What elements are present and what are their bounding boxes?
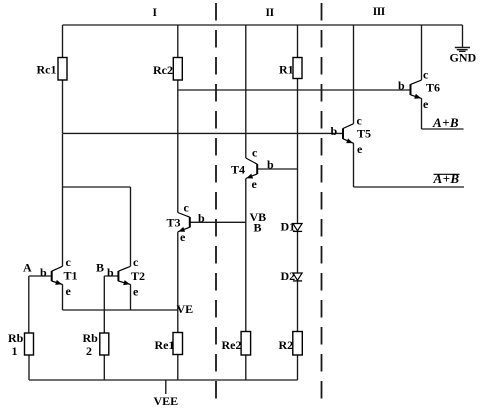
- svg-text:T1: T1: [64, 269, 78, 283]
- svg-text:II: II: [266, 7, 275, 19]
- svg-text:B: B: [96, 261, 104, 275]
- wire: VEE stub: [165, 380, 167, 394]
- svg-text:Rb: Rb: [83, 331, 99, 345]
- wire: x62.5 from wire B down to T1 collector: [62, 133, 64, 266]
- resistor R1: [279, 58, 302, 79]
- svg-text:e: e: [133, 285, 139, 299]
- svg-text:T4: T4: [231, 162, 245, 176]
- svg-text:c: c: [423, 68, 429, 82]
- transistor T2: [107, 255, 145, 299]
- svg-text:T2: T2: [131, 269, 145, 283]
- svg-text:GND: GND: [450, 50, 477, 64]
- wire: Re2 bottom to bottom rail: [245, 355, 247, 380]
- svg-text:e: e: [180, 230, 186, 244]
- svg-text:Rc1: Rc1: [37, 63, 57, 77]
- svg-text:b: b: [331, 124, 338, 138]
- wire: D2 to R2 top: [297, 281, 299, 332]
- wire: Rc1 bottom lead down to node of wire B: [62, 80, 64, 133]
- resistor Re2: [222, 332, 251, 356]
- svg-text:R2: R2: [279, 338, 294, 352]
- diode D2: [281, 269, 303, 283]
- wire: R1 bottom lead down to D1: [297, 79, 299, 224]
- wire: Rb1 bottom to bottom rail: [28, 355, 30, 380]
- resistor Rc1: [37, 58, 68, 81]
- svg-text:e: e: [357, 142, 363, 156]
- svg-text:e: e: [252, 177, 258, 191]
- wire: Re1 bottom to bottom rail: [177, 355, 179, 381]
- resistor Re1: [155, 333, 183, 355]
- svg-text:b: b: [198, 211, 205, 225]
- wire: emitter rail joining T1,T2 emitters to VE: [63, 309, 178, 311]
- wire: Rb2 bottom to bottom rail: [103, 355, 105, 380]
- svg-text:VE: VE: [177, 302, 194, 316]
- wire: VE to Re1 top: [177, 310, 179, 333]
- wire: T5 collector up to top rail: [353, 25, 355, 124]
- wire: Rc2 top lead: [177, 25, 179, 58]
- svg-text:I: I: [153, 7, 158, 19]
- svg-text:A: A: [23, 261, 32, 275]
- wire: T4 base to diode string: [257, 168, 297, 170]
- svg-text:c: c: [252, 145, 258, 159]
- transistor T5: [331, 114, 372, 156]
- svg-text:b: b: [107, 265, 114, 279]
- svg-text:Rb: Rb: [8, 331, 24, 345]
- svg-text:Rc2: Rc2: [153, 63, 173, 77]
- svg-text:A+B: A+B: [433, 171, 460, 186]
- wire A: Rc2 collector node to T6 base: [178, 89, 411, 91]
- transistor T4: [231, 145, 274, 191]
- svg-text:T6: T6: [426, 81, 440, 95]
- wire: T3 base to node VB: [190, 221, 246, 223]
- svg-text:B: B: [254, 221, 262, 235]
- resistor Rc2: [153, 58, 182, 81]
- svg-text:A+B: A+B: [432, 115, 459, 130]
- wire: T1 emitter vertical: [62, 284, 64, 310]
- node A+B-bar (NOR output label): [433, 171, 460, 186]
- svg-text:R1: R1: [279, 63, 294, 77]
- wire: T2 emitter vertical: [130, 284, 132, 310]
- svg-text:1: 1: [12, 344, 18, 358]
- wire: x177 from wire A down to T3 collector: [177, 90, 179, 213]
- wire: T4 emitter down through node VB to Re2: [245, 179, 247, 332]
- svg-text:b: b: [267, 157, 274, 171]
- svg-text:c: c: [184, 201, 190, 215]
- svg-text:T5: T5: [357, 127, 371, 141]
- wire: section divider 1 (dashed): [215, 3, 217, 399]
- transistor T1: [40, 255, 78, 298]
- svg-text:b: b: [398, 78, 405, 92]
- wire: T3 emitter down to node VE: [177, 232, 179, 310]
- svg-text:T3: T3: [167, 215, 181, 229]
- wire B: Rc1 collector node to T5 base: [63, 132, 344, 134]
- wire: input B to T2 base, down to Rb2: [104, 276, 118, 333]
- resistor Rb1: [8, 331, 34, 358]
- svg-text:c: c: [133, 255, 139, 269]
- resistor R2: [279, 332, 303, 356]
- svg-text:D2: D2: [281, 269, 296, 283]
- svg-text:e: e: [66, 284, 72, 298]
- svg-text:D1: D1: [281, 219, 296, 233]
- wire: T6 collector up to top rail: [421, 25, 423, 80]
- svg-text:c: c: [66, 255, 72, 269]
- diode D1: [281, 219, 303, 233]
- wire: T4 collector up to top rail: [245, 25, 247, 158]
- wire: T6 emitter down and out (OR output): [422, 98, 464, 129]
- svg-text:e: e: [423, 97, 429, 111]
- svg-text:Re2: Re2: [222, 338, 242, 352]
- wire: T5 emitter down and out (NOR output): [354, 143, 465, 187]
- svg-text:VEE: VEE: [154, 394, 179, 408]
- wire: bottom VEE rail: [29, 379, 298, 381]
- wire: D1 to D2: [297, 231, 299, 273]
- wire: top supply rail: [63, 24, 463, 26]
- svg-text:2: 2: [86, 344, 92, 358]
- svg-text:Re1: Re1: [155, 338, 175, 352]
- wire: R2 bottom to bottom rail: [297, 355, 299, 380]
- wire: section divider 2 (dashed): [321, 3, 323, 403]
- wire: Rc1 top lead: [62, 25, 64, 58]
- svg-text:b: b: [40, 265, 47, 279]
- transistor T6: [398, 68, 440, 111]
- wire: R1 top lead from rail: [297, 25, 299, 58]
- ground GND: [455, 25, 470, 51]
- transistor T3: [167, 201, 206, 245]
- svg-text:III: III: [373, 6, 386, 18]
- wire: tee joining T2 collector to T1 collector line: [63, 187, 131, 266]
- wire: Rc2 bottom lead to wire A: [177, 80, 179, 90]
- wire: input A to T1 base, down to Rb1: [29, 276, 51, 333]
- resistor Rb2: [83, 331, 109, 358]
